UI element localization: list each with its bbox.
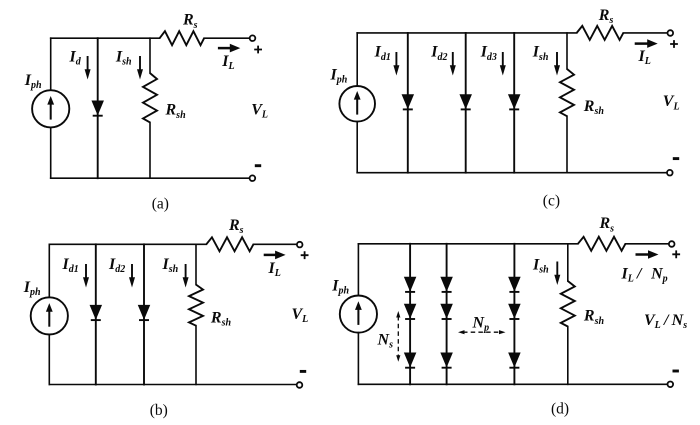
svg-text:Id: Id [69, 49, 82, 68]
wire left branch (b) [48, 244, 50, 384]
wire Rs to + terminal (b) [253, 243, 297, 245]
wire diode string 2 (d) [446, 244, 448, 384]
svg-text:Rs: Rs [598, 7, 614, 26]
diode string 2 bottom diode (d) [441, 353, 452, 368]
arrow Id2 (c) [450, 52, 456, 76]
resistor Rs (c) [577, 26, 624, 40]
current source Iph (b) [31, 297, 68, 334]
svg-text:Id3: Id3 [480, 44, 497, 63]
svg-text:VL / Ns: VL / Ns [644, 312, 687, 331]
resistor Rsh (b) [189, 285, 203, 326]
wire shunt branch (d) [567, 244, 569, 384]
diode D3 (c) [509, 95, 520, 110]
minus sign (b) [300, 370, 306, 373]
resistor Rsh (a) [143, 73, 157, 122]
svg-text:Ish: Ish [115, 49, 132, 68]
arrow IL (b) [264, 251, 286, 260]
wire shunt branch (b) [195, 244, 197, 384]
svg-text:Id1: Id1 [62, 256, 79, 275]
arrow IL (a) [218, 44, 240, 53]
wire diode branch 2 (c) [465, 33, 467, 173]
wire left branch (c) [356, 33, 358, 173]
diode string 1 middle diode (d) [405, 304, 416, 319]
svg-text:Ns: Ns [377, 332, 394, 351]
resistor Rsh (c) [560, 69, 574, 116]
wire diode branch (a) [97, 38, 99, 178]
wire shunt branch (c) [566, 33, 568, 173]
wire top bus (d) [358, 243, 578, 245]
panel (d): generalized Ns x Np PV array model [331, 215, 687, 417]
arrow Ish (c) [554, 52, 560, 76]
arrow Id1 (c) [393, 52, 399, 76]
diode string 3 top diode (d) [509, 277, 520, 292]
wire left branch (d) [357, 244, 359, 384]
terminal + (a) [250, 35, 256, 41]
svg-text:IL: IL [268, 260, 281, 279]
svg-text:IL: IL [638, 48, 651, 67]
current source Iph (c) [339, 86, 375, 122]
diode D1 (b) [90, 305, 101, 320]
resistor Rs (a) [160, 31, 205, 45]
diode string 1 top diode (d) [405, 277, 416, 292]
plus sign (d) [672, 250, 680, 258]
svg-text:Iph: Iph [331, 278, 349, 297]
dashed double arrow Np (d) [458, 330, 506, 334]
svg-text:Id2: Id2 [430, 44, 447, 63]
minus sign (d) [673, 370, 679, 373]
svg-text:Iph: Iph [23, 279, 41, 298]
svg-text:VL: VL [292, 306, 309, 325]
terminal - (b) [297, 382, 303, 388]
svg-text:Id2: Id2 [108, 256, 125, 275]
diode string 3 bottom diode (d) [509, 353, 520, 368]
wire left branch (a) [50, 38, 52, 178]
svg-text:IL / Np: IL / Np [621, 266, 668, 285]
arrow Id1 (b) [83, 264, 89, 288]
svg-text:Iph: Iph [330, 67, 348, 86]
arrow Ish (d) [554, 262, 560, 286]
terminal - (a) [250, 175, 256, 181]
resistor Rs (b) [206, 237, 253, 251]
arrow Ish (a) [137, 56, 143, 80]
minus sign (a) [255, 164, 261, 167]
svg-text:Rs: Rs [182, 12, 198, 31]
wire diode branch 3 (c) [513, 33, 515, 173]
wire top bus (a) [51, 37, 160, 39]
current source Iph (a) [32, 90, 69, 127]
svg-text:Np: Np [472, 314, 490, 333]
svg-text:IL: IL [221, 53, 234, 72]
terminal - (d) [668, 382, 674, 388]
svg-text:Rs: Rs [599, 215, 615, 234]
svg-text:(b): (b) [150, 402, 168, 419]
plus sign (b) [301, 251, 309, 259]
minus sign (c) [673, 157, 679, 160]
svg-text:Ish: Ish [532, 44, 549, 63]
diode string 2 top diode (d) [441, 277, 452, 292]
wire top bus (b) [49, 243, 206, 245]
wire diode branch 1 (b) [95, 244, 97, 384]
diode string 1 bottom diode (d) [405, 353, 416, 368]
svg-text:Rsh: Rsh [583, 308, 605, 327]
wire diode branch 1 (c) [407, 33, 409, 173]
svg-text:(a): (a) [152, 196, 169, 213]
svg-text:Rsh: Rsh [165, 102, 187, 121]
resistor Rsh (d) [561, 281, 575, 327]
terminal - (c) [667, 170, 673, 176]
svg-text:VL: VL [251, 101, 268, 120]
wire bottom bus (b) [49, 384, 296, 386]
svg-text:Iph: Iph [24, 72, 42, 91]
arrow IL/Np (d) [636, 250, 659, 259]
svg-text:Rsh: Rsh [583, 98, 605, 117]
arrow Id (a) [85, 56, 91, 80]
diode D (a) [92, 101, 103, 116]
arrow Ish (b) [183, 264, 189, 288]
wire diode string 1 (d) [409, 244, 411, 384]
panel (c): triple-diode PV cell model [330, 7, 680, 210]
diode D2 (c) [460, 95, 471, 110]
plus sign (c) [670, 40, 678, 48]
current source Iph (d) [340, 296, 377, 333]
dashed double arrow Ns (d) [396, 311, 400, 362]
wire top bus (c) [357, 32, 577, 34]
diode string 2 middle diode (d) [441, 304, 452, 319]
plus sign (a) [254, 46, 262, 54]
terminal + (b) [297, 242, 303, 248]
wire shunt branch (a) [149, 38, 151, 178]
diode D1 (c) [402, 95, 413, 110]
diode D2 (b) [139, 305, 150, 320]
svg-text:Rsh: Rsh [210, 310, 232, 329]
diode string 3 middle diode (d) [509, 304, 520, 319]
wire Rs to + terminal (a) [204, 37, 250, 39]
arrow Id3 (c) [500, 52, 506, 76]
svg-text:VL: VL [663, 93, 680, 112]
svg-text:Ish: Ish [532, 257, 549, 276]
terminal + (d) [669, 241, 675, 247]
wire bottom bus (a) [51, 177, 250, 179]
panel (a): single-diode PV cell model [24, 12, 268, 213]
svg-text:Rs: Rs [228, 217, 244, 236]
wire bottom bus (c) [357, 172, 667, 174]
arrow Id2 (b) [129, 264, 135, 288]
resistor Rs (d) [578, 237, 626, 251]
panel (b): double-diode PV cell model [23, 217, 309, 419]
svg-text:(c): (c) [543, 193, 560, 210]
svg-text:(d): (d) [551, 401, 569, 418]
wire diode branch 2 (b) [143, 244, 145, 384]
wire diode string 3 (d) [513, 244, 515, 384]
arrow IL (c) [635, 39, 658, 48]
wire Rs to + terminal (c) [623, 32, 667, 34]
wire Rs to + terminal (d) [625, 243, 669, 245]
terminal + (c) [668, 30, 674, 36]
wire bottom bus (d) [358, 383, 667, 385]
svg-text:Id1: Id1 [374, 44, 391, 63]
svg-text:Ish: Ish [162, 256, 179, 275]
